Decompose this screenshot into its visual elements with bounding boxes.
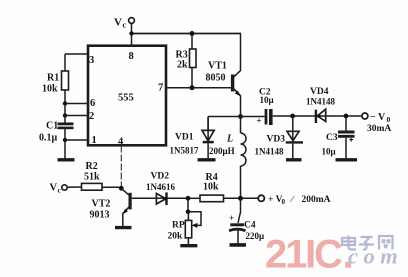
svg-text:30mA: 30mA bbox=[367, 124, 391, 134]
terminal Vc (bottom left) bbox=[50, 183, 68, 195]
svg-text:3: 3 bbox=[89, 55, 94, 66]
watermark 21IC logo bbox=[265, 233, 351, 277]
svg-text:1N5817: 1N5817 bbox=[170, 146, 199, 156]
wire C3 branch bbox=[345, 116, 347, 131]
wire R3 to pin7 line bbox=[191, 68, 193, 88]
wire pin 4 reset line bbox=[120, 146, 122, 189]
junction RP wiper bbox=[186, 209, 191, 214]
svg-text:VT1: VT1 bbox=[208, 61, 227, 72]
svg-text:0: 0 bbox=[387, 115, 391, 124]
svg-text:10μ: 10μ bbox=[260, 95, 274, 105]
ground (below VD3) bbox=[286, 158, 302, 161]
svg-text:VT2: VT2 bbox=[92, 199, 111, 210]
svg-text:220μ: 220μ bbox=[246, 231, 265, 241]
wire pin 6 bbox=[65, 103, 88, 105]
svg-text:+ V: + V bbox=[268, 195, 283, 205]
wire VT2 base to VD2 bbox=[132, 197, 188, 199]
wire pin 3 bbox=[65, 54, 88, 71]
ground (below C3) bbox=[336, 158, 358, 161]
svg-text:com: com bbox=[348, 244, 403, 269]
svg-text:1N4148: 1N4148 bbox=[306, 97, 335, 107]
junction R3 / pin 7 bbox=[190, 85, 195, 90]
wire emitter node down to inductor bbox=[240, 117, 242, 134]
junction C3 top bbox=[344, 114, 349, 119]
junction pin-8/rail bbox=[129, 31, 133, 35]
diode VD4 1N4148 bbox=[306, 87, 335, 123]
transistor VT2 9013 bbox=[90, 188, 131, 226]
svg-text:0: 0 bbox=[282, 198, 286, 206]
junction VT1 emitter node bbox=[238, 114, 243, 119]
wire C4 to ground bbox=[237, 231, 239, 244]
watermark .com script bbox=[348, 244, 403, 269]
diode VD1 1N5817 bbox=[170, 117, 215, 159]
diode VD2 1N4616 bbox=[146, 172, 175, 206]
svg-text:VD4: VD4 bbox=[310, 87, 329, 97]
svg-text:51k: 51k bbox=[84, 172, 100, 183]
diode VD3 1N4148 bbox=[255, 116, 304, 158]
resistor R3 bbox=[176, 49, 197, 71]
svg-text:C3: C3 bbox=[326, 133, 338, 143]
svg-text:1N4616: 1N4616 bbox=[146, 182, 175, 192]
ground (VT2 emitter) bbox=[115, 226, 132, 229]
wire R4 to +Vo node bbox=[224, 197, 241, 199]
svg-text:R1: R1 bbox=[47, 73, 59, 84]
wire pin1 node to ground bbox=[64, 140, 66, 159]
wire Vc terminal to rail bbox=[131, 24, 133, 34]
resistor R4 bbox=[200, 172, 224, 202]
wire R2 to pin4 node bbox=[102, 186, 120, 188]
wire inductor to +Vo node bbox=[240, 166, 242, 198]
svg-text:V: V bbox=[114, 17, 122, 29]
IC U1 555 timer bbox=[88, 46, 166, 146]
svg-text:∕: ∕ bbox=[290, 195, 296, 205]
junction VD2 / R4 / RP bbox=[186, 196, 191, 201]
resistor R1 bbox=[42, 71, 69, 95]
svg-text:+: + bbox=[257, 116, 262, 126]
capacitor C3 bbox=[322, 132, 355, 157]
wire RP wiper loop bbox=[188, 212, 201, 226]
wire VD4 to output node bbox=[346, 115, 362, 117]
inductor L 200uH bbox=[209, 133, 246, 166]
svg-text:VD3: VD3 bbox=[267, 135, 286, 145]
wire node to R4 bbox=[188, 197, 200, 199]
svg-text:c: c bbox=[58, 186, 62, 195]
junction pin 1 bbox=[63, 138, 67, 142]
svg-text:RP: RP bbox=[172, 221, 185, 231]
terminal Vc (top supply) bbox=[114, 17, 134, 30]
svg-text:10k: 10k bbox=[42, 84, 58, 95]
wire node down to C4 bbox=[238, 198, 241, 223]
capacitor C4 bbox=[229, 213, 264, 241]
wire C1 to pin1 node bbox=[64, 129, 66, 140]
svg-text:V: V bbox=[50, 183, 58, 194]
capacitor C1 bbox=[39, 121, 74, 144]
junction pin 2 bbox=[63, 113, 67, 117]
svg-text:VD2: VD2 bbox=[151, 172, 170, 182]
svg-text:8: 8 bbox=[129, 51, 134, 62]
potentiometer RP 20k bbox=[168, 212, 198, 245]
wire emitter node to VD1 branch bbox=[208, 116, 240, 118]
capacitor C2 bbox=[257, 88, 274, 126]
junction pin4 / VT2 collector bbox=[119, 186, 124, 191]
svg-text:− V: − V bbox=[370, 112, 386, 123]
resistor R2 bbox=[82, 161, 103, 190]
ground (below RP) bbox=[180, 244, 197, 247]
wire Vc to R2 bbox=[67, 186, 81, 188]
svg-text:R2: R2 bbox=[86, 161, 98, 172]
svg-text:2: 2 bbox=[89, 111, 94, 122]
svg-text:200μH: 200μH bbox=[209, 146, 235, 156]
svg-text:2k: 2k bbox=[177, 60, 188, 71]
wire emitter node to C2 bbox=[241, 116, 265, 118]
terminal +Vo bbox=[258, 195, 330, 206]
ground (below C1) bbox=[58, 158, 75, 161]
svg-text:C4: C4 bbox=[244, 220, 256, 230]
svg-text:c: c bbox=[123, 21, 127, 30]
svg-text:6: 6 bbox=[90, 98, 95, 109]
svg-text:9013: 9013 bbox=[90, 210, 110, 221]
svg-text:555: 555 bbox=[118, 93, 134, 104]
watermark 电子网 glyphs bbox=[342, 236, 393, 250]
transistor VT1 8050 bbox=[206, 34, 241, 117]
wire C2 to C3 node bbox=[273, 115, 346, 117]
wire power rail bbox=[132, 33, 242, 35]
svg-text:7: 7 bbox=[158, 83, 163, 94]
svg-text:10μ: 10μ bbox=[322, 147, 336, 157]
svg-text:20k: 20k bbox=[168, 232, 184, 242]
wire pin6 node to pin2 node bbox=[64, 104, 66, 116]
wire pin 7 to VT1 base bbox=[166, 87, 231, 89]
svg-text:VD1: VD1 bbox=[175, 133, 194, 143]
wire pin 8 bbox=[131, 34, 133, 46]
svg-text:0.1μ: 0.1μ bbox=[39, 133, 58, 144]
wire node down to RP bbox=[187, 198, 189, 211]
svg-text:L: L bbox=[226, 134, 233, 145]
svg-text:200mA: 200mA bbox=[302, 195, 331, 205]
svg-text:8050: 8050 bbox=[206, 73, 226, 84]
svg-text:1N4148: 1N4148 bbox=[255, 147, 284, 157]
wire pin2 node to C1 bbox=[64, 116, 66, 123]
wire node to output terminal bbox=[241, 197, 259, 199]
wire pin 2 bbox=[65, 115, 88, 117]
junction R3 top bbox=[190, 31, 195, 36]
wire rail to R3 bbox=[191, 34, 193, 50]
svg-text:21IC: 21IC bbox=[265, 233, 342, 277]
svg-text:C1: C1 bbox=[46, 121, 58, 132]
ground (below C4) bbox=[230, 243, 247, 247]
ground (below VD1) bbox=[198, 158, 216, 161]
wire pin 1 bbox=[65, 139, 88, 141]
terminal -Vo bbox=[362, 112, 392, 134]
svg-text:1: 1 bbox=[92, 135, 97, 146]
junction VD3 top bbox=[290, 114, 295, 119]
wire R1 to pin6 node bbox=[64, 90, 66, 104]
wire VD1 branch down bbox=[207, 117, 209, 131]
junction pin 6 bbox=[63, 101, 67, 105]
wire C3 to ground bbox=[345, 138, 347, 159]
junction L / R4 / C4 / output bbox=[238, 196, 243, 201]
svg-text:+: + bbox=[229, 213, 234, 223]
svg-text:10k: 10k bbox=[203, 182, 219, 193]
